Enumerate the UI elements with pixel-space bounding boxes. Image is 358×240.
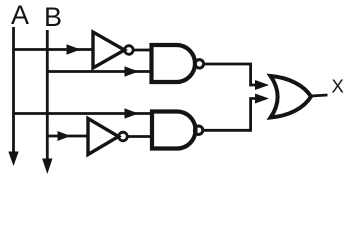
- inverter U2 bubble: [119, 132, 128, 141]
- arrowhead on wire B-U3: [125, 66, 139, 76]
- OR gate U5: [271, 76, 312, 118]
- arrowhead on U4-U5 wire: [255, 94, 269, 104]
- wire U1 output to NAND U3 input: [133, 49, 151, 52]
- net B vertical wire: [46, 30, 49, 160]
- NAND U3 body: [152, 45, 196, 82]
- svg-text:A: A: [11, 0, 29, 30]
- inverter U1 bubble: [125, 46, 134, 55]
- NAND U3 output bubble: [195, 60, 203, 68]
- wire B to NAND U3 lower input: [47, 70, 151, 73]
- wire B to inverter U2 input: [47, 135, 88, 138]
- wire A to inverter U1 input: [14, 48, 94, 51]
- inverter U1 triangle: [93, 32, 125, 68]
- NAND U4 body: [152, 112, 196, 149]
- arrowhead on wire A-U1: [67, 44, 81, 54]
- net A vertical wire: [12, 27, 15, 153]
- net B arrowhead: [42, 159, 52, 175]
- wire U3 output to OR U5 upper input: [204, 64, 256, 85]
- wire U2 output to NAND U4 input: [127, 135, 152, 138]
- svg-text:X: X: [332, 76, 344, 97]
- svg-text:B: B: [44, 2, 62, 32]
- wire U5 output to X: [311, 95, 328, 96]
- arrowhead on wire B-U2: [58, 131, 71, 141]
- wire U4 output to OR U5 lower input: [203, 99, 256, 131]
- NAND U4 output bubble: [194, 126, 202, 134]
- net A arrowhead: [8, 152, 18, 167]
- wire A to NAND U4 upper input: [14, 112, 153, 115]
- arrowhead on U3-U5 wire: [255, 80, 269, 90]
- arrowhead on wire A-U4: [125, 108, 139, 118]
- inverter U2 triangle: [88, 119, 119, 155]
